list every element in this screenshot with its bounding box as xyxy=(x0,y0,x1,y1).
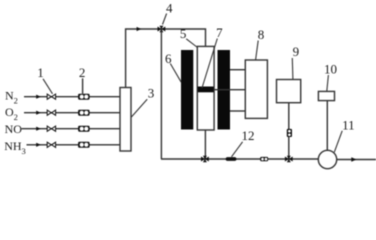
leader line 7 xyxy=(202,39,217,89)
three-way valve below reactor xyxy=(201,156,209,162)
leader line 8 xyxy=(256,41,259,60)
svg-text:7: 7 xyxy=(216,25,223,40)
wire NO line xyxy=(22,128,121,130)
instrument box 10 xyxy=(318,91,334,100)
wire NH3 line xyxy=(27,144,121,146)
leader line 1 xyxy=(43,79,53,94)
svg-text:9: 9 xyxy=(293,44,300,59)
wire outlet after pump xyxy=(337,159,376,161)
svg-text:12: 12 xyxy=(242,128,255,143)
pump circle 11 xyxy=(318,150,336,168)
heater bar right xyxy=(218,50,231,130)
leader line 2 xyxy=(82,78,84,93)
leader line 9 xyxy=(291,58,294,79)
flowmeter on O2 line xyxy=(78,110,90,116)
leader line 12 xyxy=(232,142,243,157)
flowmeter on NH3 line xyxy=(78,142,90,148)
leader line 11 xyxy=(334,131,342,152)
valve on O2 line xyxy=(47,110,55,115)
flow arrow NO xyxy=(36,127,41,131)
vertical mini flowmeter xyxy=(287,129,292,137)
wire mixer top to reactor inlet xyxy=(126,29,206,88)
valve on NH3 line xyxy=(47,142,55,147)
reactor tube 5 xyxy=(197,46,214,130)
three-way valve 4 xyxy=(158,26,166,32)
flow arrow O2 xyxy=(36,111,41,115)
flowmeter on NO line xyxy=(78,126,90,132)
valve on NO line xyxy=(47,126,55,131)
leader line 5 xyxy=(186,39,197,48)
svg-text:2: 2 xyxy=(79,65,86,80)
flow arrow outlet xyxy=(351,157,356,162)
mixer vessel 3 xyxy=(120,88,131,152)
leader line 4 xyxy=(163,14,167,25)
wire reactor to analyzer bottom xyxy=(230,110,245,112)
svg-text:3: 3 xyxy=(148,85,155,100)
heater bar left 6 xyxy=(181,50,193,130)
flow arrow N2 xyxy=(36,95,41,99)
leader line 6 xyxy=(170,64,181,83)
wire box 10 down to pump xyxy=(326,101,328,151)
wire O2 line xyxy=(24,112,120,114)
wire reactor outlet down xyxy=(204,130,206,159)
wire reactor to analyzer middle xyxy=(214,89,245,91)
catalyst bed 7 xyxy=(198,87,214,93)
mini flowmeter bottom line xyxy=(260,157,268,161)
valve 1 on N2 line xyxy=(47,94,55,99)
analyzer box 8 xyxy=(245,60,267,118)
svg-text:1: 1 xyxy=(37,65,44,80)
flow arrow NH3 xyxy=(36,143,41,147)
svg-text:4: 4 xyxy=(166,0,173,15)
svg-text:NO: NO xyxy=(5,122,23,136)
three-way valve below box 9 xyxy=(285,156,293,162)
flow arrow top line xyxy=(137,27,142,31)
wire reactor to analyzer top xyxy=(230,69,245,71)
instrument box 9 xyxy=(277,80,301,103)
leader line 3 xyxy=(131,99,147,117)
svg-text:11: 11 xyxy=(342,118,355,133)
wire bypass from valve 4 down xyxy=(160,31,162,159)
svg-text:10: 10 xyxy=(324,61,337,76)
wire box 9 down xyxy=(288,103,290,159)
flowmeter on N2 line xyxy=(78,94,90,100)
svg-text:8: 8 xyxy=(258,27,265,42)
svg-text:5: 5 xyxy=(180,26,187,41)
wire N2 line xyxy=(24,96,120,98)
leader line 10 xyxy=(327,75,329,91)
wire bottom exhaust line xyxy=(161,158,319,160)
filter 12 xyxy=(226,157,237,161)
